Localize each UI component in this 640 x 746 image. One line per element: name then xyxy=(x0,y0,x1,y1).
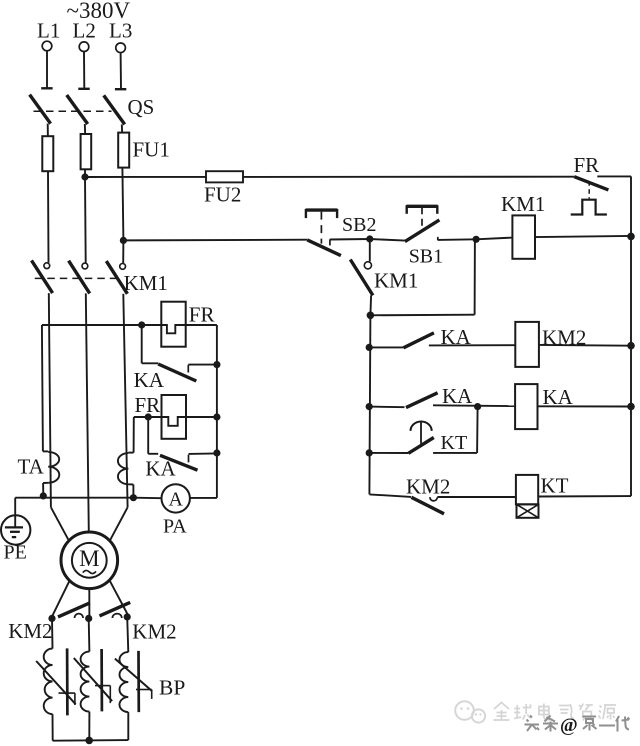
wire phase2 junction to KM1 xyxy=(84,177,87,263)
junction SB1 right node xyxy=(473,236,480,243)
junction hold bottom node xyxy=(367,312,375,320)
wire secondary common bottom xyxy=(15,497,133,499)
svg-text:KM2: KM2 xyxy=(406,475,450,499)
wire KM1 coil to rail xyxy=(535,236,631,237)
contact KM2 shorting 2 xyxy=(100,602,131,618)
wire phase3 FU1 to junction xyxy=(122,168,123,241)
label motor tilde xyxy=(83,570,96,573)
junction rail row KM2 coil xyxy=(366,344,373,351)
pushbutton SB2 stop xyxy=(306,209,370,256)
junction KA1 right node xyxy=(213,361,220,368)
coil KT with delay element xyxy=(516,475,539,518)
switch QS pole 1 xyxy=(30,88,53,123)
svg-text:FR: FR xyxy=(135,393,161,417)
svg-text:KA: KA xyxy=(441,325,472,349)
wire phase1 FU1 to KM1 xyxy=(47,171,50,262)
coil KM2 xyxy=(515,322,539,367)
switch QS pole 2 xyxy=(67,89,90,124)
svg-text:PE: PE xyxy=(4,542,27,564)
watermark text toutiao bengyidai xyxy=(525,715,630,736)
watermark text quanqiu dianqi ziyuan xyxy=(494,703,617,721)
wire rotor1 to BP xyxy=(51,618,54,648)
wire control rail left xyxy=(369,315,370,494)
wire TA1 secondary top xyxy=(42,324,161,326)
svg-text:KM1: KM1 xyxy=(374,268,418,292)
junction BP bottom xyxy=(85,737,93,745)
svg-text:L1: L1 xyxy=(37,18,60,42)
svg-text:L3: L3 xyxy=(109,18,132,42)
wire phase2 KM1 to motor xyxy=(86,293,89,532)
motor M xyxy=(61,532,118,589)
svg-text:TA: TA xyxy=(18,454,45,478)
svg-text:SB2: SB2 xyxy=(342,214,376,236)
svg-text:A: A xyxy=(168,489,183,511)
junction rail row 1 xyxy=(627,342,635,350)
junction rail KM1 row xyxy=(627,233,635,241)
svg-text:L2: L2 xyxy=(73,18,96,42)
contact KA bypass 1 xyxy=(142,325,217,381)
svg-text:QS: QS xyxy=(128,95,155,119)
contact KT delayed xyxy=(369,421,477,453)
current transformer TA1 xyxy=(42,325,59,496)
junction KA2 right node xyxy=(213,449,220,456)
svg-text:SB1: SB1 xyxy=(409,246,443,268)
junction rotor left xyxy=(48,615,55,622)
pushbutton SB1 start xyxy=(405,205,476,241)
wire FR2 left node xyxy=(134,416,162,418)
svg-text:PA: PA xyxy=(163,516,187,538)
contactor KM1 main contact 3 xyxy=(106,261,127,294)
junction rotor mid xyxy=(85,615,92,622)
wire L3 to QS xyxy=(120,53,122,89)
wire KA coil to rail xyxy=(538,405,632,407)
svg-text:KA: KA xyxy=(442,384,473,408)
KM1 main linkage dashed xyxy=(35,277,121,279)
switch QS pole 3 xyxy=(104,89,127,124)
contact KA row 1 xyxy=(369,333,515,348)
thermal element FR heater 2 xyxy=(162,395,217,439)
svg-text:KM2: KM2 xyxy=(8,619,52,643)
wire phase3 junction to KM1 xyxy=(122,240,124,263)
wire control rail right xyxy=(630,176,632,496)
svg-text:BP: BP xyxy=(159,675,185,699)
wire KT coil to rail xyxy=(539,495,631,497)
wire hold branch xyxy=(370,240,475,316)
wire phase1 KM1 to motor xyxy=(49,293,69,540)
ammeter PA xyxy=(133,484,217,512)
junction phase2 control tap xyxy=(81,173,88,180)
wire rotor3 to BP xyxy=(127,617,128,652)
wire QS2 to FU1b xyxy=(84,124,86,135)
junction rail row KT contact xyxy=(366,449,373,456)
svg-text:FR: FR xyxy=(574,153,600,177)
svg-text:KA: KA xyxy=(543,385,574,409)
wire QS3 to FU1c xyxy=(121,124,123,133)
current transformer TA2 xyxy=(118,417,134,498)
fuse FU1 phase 3 xyxy=(118,133,129,168)
contactor KM1 main contact 1 xyxy=(32,260,53,293)
junction FR2 right node xyxy=(213,413,220,420)
wire L2 to QS xyxy=(83,52,85,89)
junction KT branch node xyxy=(474,403,481,410)
svg-text:KT: KT xyxy=(541,473,569,497)
junction rotor right xyxy=(124,613,131,620)
junction FR1 KA1 left node xyxy=(138,321,145,328)
rheostat BP element 3 xyxy=(115,651,152,740)
coil KA xyxy=(515,384,537,429)
contact KA row 2 xyxy=(369,393,515,408)
wire SB2 to SB1 xyxy=(370,239,405,241)
contact KM1 aux hold xyxy=(350,239,373,315)
wire control line 1 xyxy=(85,176,574,178)
contact KM2 shorting 1 xyxy=(58,603,90,618)
rheostat BP element 2 xyxy=(74,649,112,740)
svg-text:KM1: KM1 xyxy=(124,271,168,295)
wire QS1 to FU1a xyxy=(47,124,49,137)
fuse FU1 phase 1 xyxy=(42,136,53,171)
wire phase3 KM1 to motor xyxy=(110,294,128,541)
junction SB2 SB1 node xyxy=(366,235,373,242)
wire L1 to QS xyxy=(46,51,48,89)
wire rotor lead right xyxy=(110,580,129,615)
svg-text:M: M xyxy=(79,546,99,571)
QS linkage dashed xyxy=(34,110,112,112)
coil KM1 xyxy=(512,215,535,258)
rheostat BP element 1 xyxy=(36,648,75,740)
wire KT branch vertical xyxy=(476,407,479,453)
wire KM2 coil to rail xyxy=(539,344,631,347)
svg-text:FU2: FU2 xyxy=(204,182,241,206)
svg-text:FU1: FU1 xyxy=(133,137,170,161)
junction TA2 bottom meter node xyxy=(130,494,137,501)
svg-text:FR: FR xyxy=(189,302,215,326)
svg-text:KM1: KM1 xyxy=(501,192,545,216)
svg-text:KA: KA xyxy=(134,368,165,392)
contact KM2 NC bottom xyxy=(369,494,516,513)
watermark wechat icon xyxy=(455,701,485,722)
thermal relay FR NC contact xyxy=(571,176,631,214)
wire rotor lead mid xyxy=(88,589,90,619)
wire rotor lead left xyxy=(52,581,70,617)
svg-text:@: @ xyxy=(560,715,578,736)
contactor KM1 main contact 2 xyxy=(69,261,90,294)
junction rail row KA coil xyxy=(366,403,373,410)
junction rail row 2 xyxy=(627,403,635,411)
junction FR2 KA2 left node xyxy=(145,413,152,420)
junction TA1 bottom xyxy=(40,492,47,499)
ground PE xyxy=(1,498,30,545)
wire control line 2 xyxy=(123,239,307,242)
wire rotor2 to BP xyxy=(88,618,91,651)
svg-text:KA: KA xyxy=(145,457,176,481)
fuse FU2 xyxy=(206,171,243,182)
thermal element FR heater 1 xyxy=(161,302,217,347)
svg-text:KT: KT xyxy=(441,432,468,454)
wire BP common bottom xyxy=(53,739,129,742)
contact KA bypass 2 xyxy=(148,417,217,470)
junction phase3 control tap xyxy=(120,237,127,244)
wire phase2 FU1 to junction xyxy=(84,169,86,177)
wire measurement rail right xyxy=(216,325,218,498)
svg-text:KM2: KM2 xyxy=(132,619,176,643)
fuse FU1 phase 2 xyxy=(81,134,92,169)
wire SB1 to KM1 coil xyxy=(476,238,512,240)
